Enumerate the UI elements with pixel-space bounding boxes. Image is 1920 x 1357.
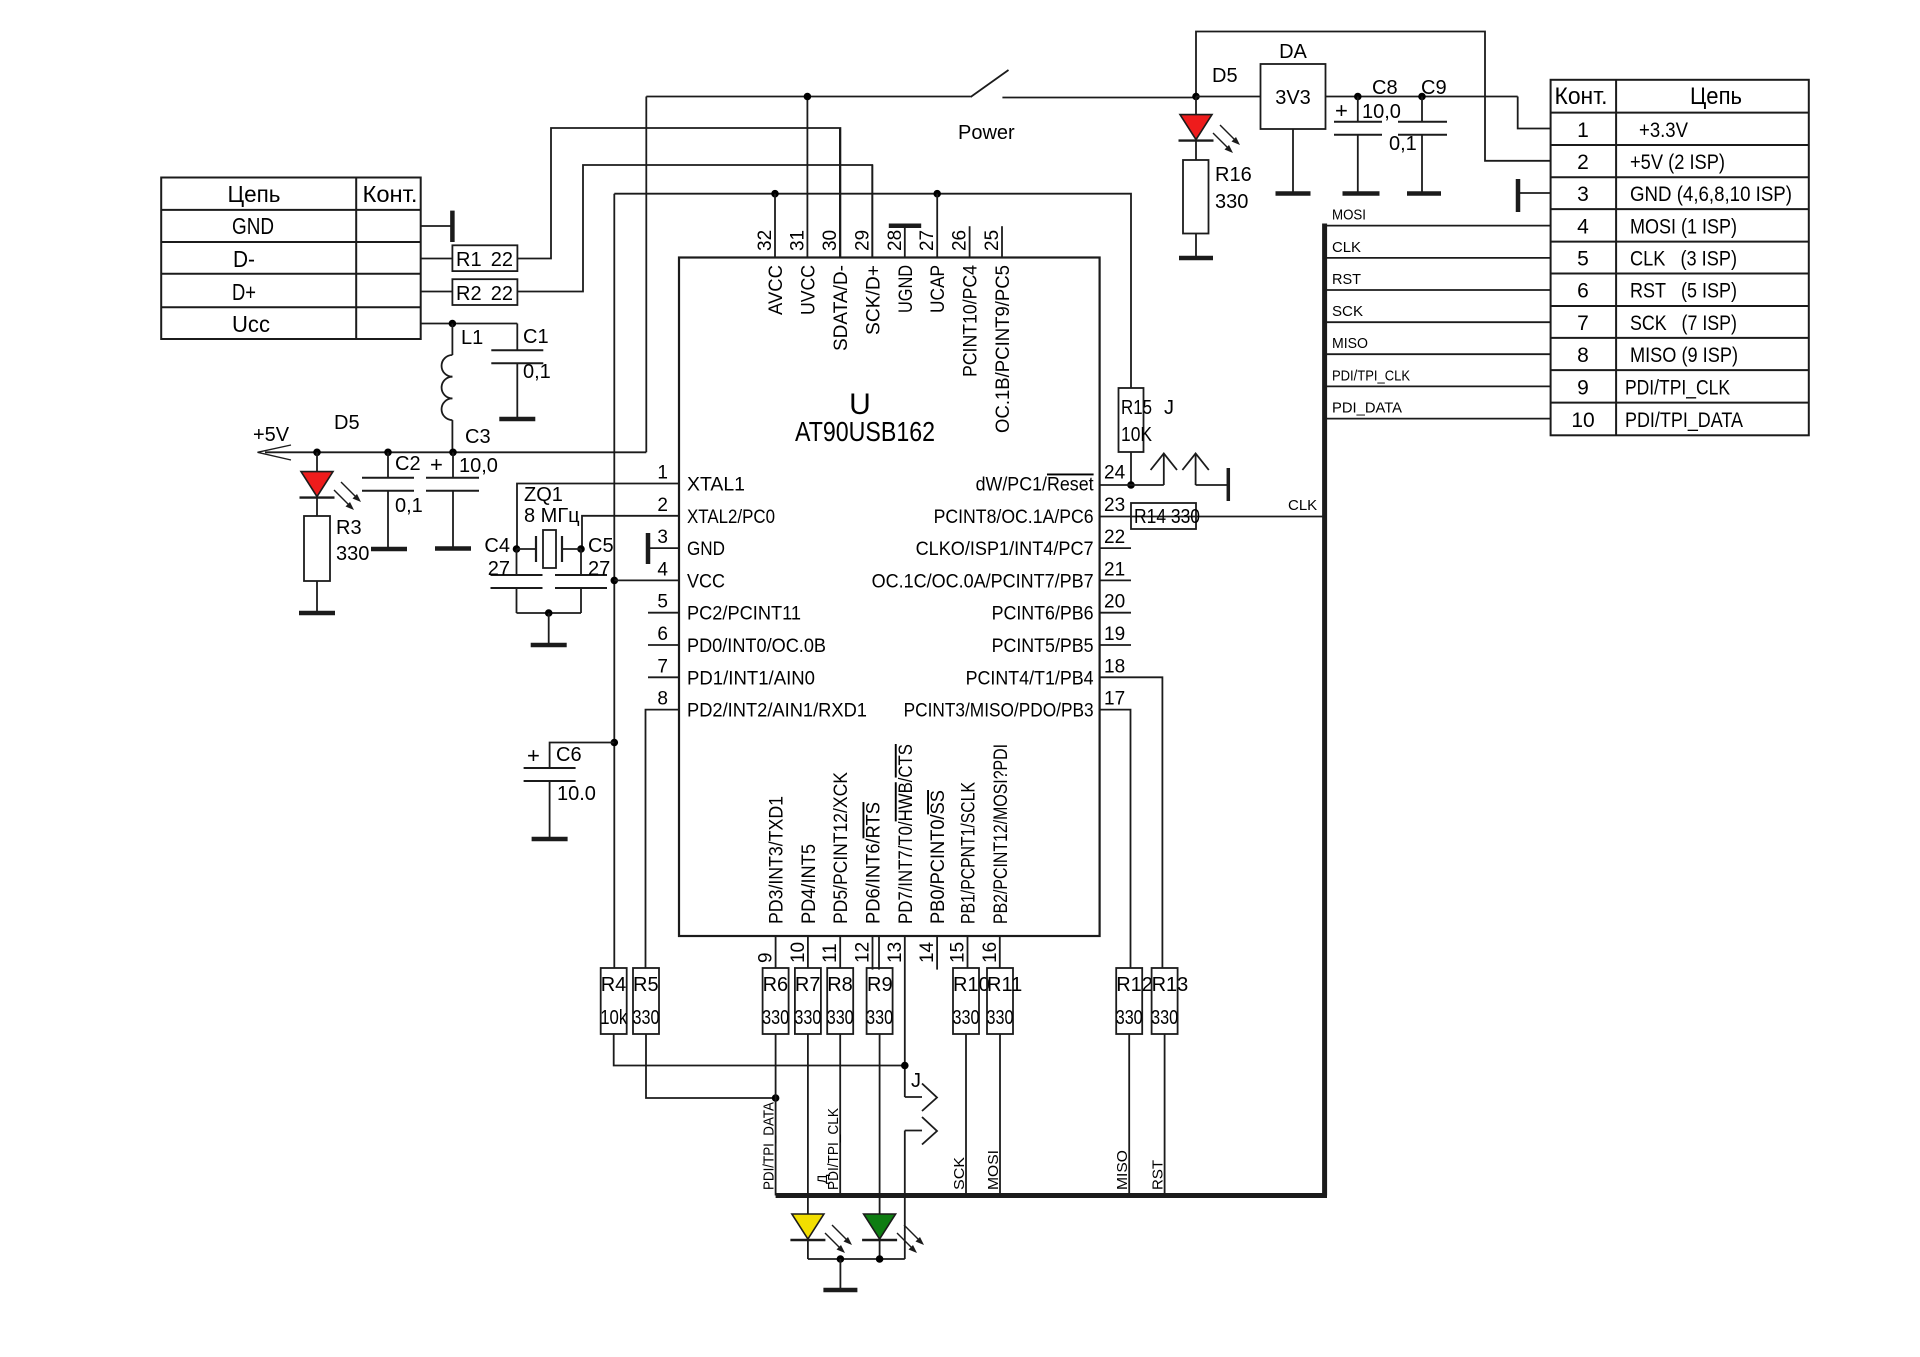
- svg-text:5: 5: [1577, 248, 1589, 271]
- svg-text:Конт.: Конт.: [1555, 83, 1608, 110]
- svg-text:24: 24: [1104, 463, 1126, 484]
- net label Д: [814, 1174, 830, 1184]
- svg-text:PDI/TPI_CLK: PDI/TPI_CLK: [1625, 376, 1730, 399]
- wire +5V riser to power switch: [645, 97, 647, 453]
- svg-text:R16: R16: [1215, 164, 1252, 186]
- wire DA output: [1326, 96, 1518, 98]
- svg-text:C8: C8: [1372, 77, 1398, 99]
- svg-text:+5V: +5V: [253, 424, 290, 446]
- svg-text:10k: 10k: [600, 1007, 628, 1029]
- svg-text:R15: R15: [1121, 397, 1152, 419]
- node C9 junction: [1418, 93, 1426, 101]
- resistor R4: [600, 968, 628, 1034]
- IC pin 27 name: [928, 265, 949, 313]
- svg-text:PD6/INT6/RTS: PD6/INT6/RTS: [864, 802, 885, 924]
- resistor R6: [762, 968, 789, 1034]
- svg-text:16: 16: [980, 942, 1001, 963]
- pin number 21: [1104, 559, 1125, 580]
- IC U AT90USB162 body: [679, 258, 1100, 937]
- svg-text:330: 330: [953, 1007, 980, 1029]
- svg-text:11: 11: [820, 943, 841, 963]
- wire 3V3 to table row1: [1518, 97, 1551, 129]
- wire power rail: [646, 96, 970, 98]
- pin 25 stub: [1001, 226, 1003, 257]
- pin 15 stub: [967, 936, 969, 968]
- USB shield ground bar: [450, 211, 455, 242]
- wire DA ground: [1292, 129, 1294, 194]
- pin 30 stub: [839, 128, 841, 258]
- pin 32 stub: [774, 194, 776, 258]
- wire AVCC-UCAP rail: [614, 194, 1131, 388]
- svg-text:PDI/TPI_DATA: PDI/TPI_DATA: [1625, 409, 1743, 432]
- net label MISO: [1114, 1150, 1131, 1190]
- svg-text:SCK (7 ISP): SCK (7 ISP): [1630, 312, 1737, 335]
- wire R3 to ground: [316, 581, 318, 613]
- svg-text:R9: R9: [867, 974, 893, 996]
- IC pin 20 name: [992, 604, 1094, 625]
- ground under C8: [1343, 191, 1380, 196]
- svg-text:PB0/PCINT0/SS: PB0/PCINT0/SS: [928, 790, 949, 924]
- svg-text:MISO (9 ISP): MISO (9 ISP): [1630, 344, 1738, 367]
- svg-text:+: +: [527, 743, 540, 768]
- pin number 31: [787, 230, 808, 251]
- pin number 32: [755, 230, 776, 251]
- net label CLK: [1332, 239, 1361, 256]
- capacitor C9: [1389, 77, 1447, 194]
- resistor R13: [1151, 968, 1188, 1034]
- IC pin 2 name: [687, 507, 775, 528]
- resistor R2: [452, 279, 517, 305]
- IC pin 24 name: [976, 475, 1095, 496]
- svg-text:GND: GND: [687, 539, 725, 560]
- IC pin 17 name: [904, 701, 1094, 722]
- node pin24 junction: [1127, 481, 1135, 489]
- svg-text:SCK: SCK: [1332, 303, 1363, 320]
- pin 31 stub: [806, 97, 808, 258]
- net label PDI_DATA: [1332, 400, 1402, 417]
- resistor R9: [866, 968, 893, 1034]
- wire R4 to HWB jumper: [614, 1034, 905, 1066]
- table header Конт.: [363, 181, 418, 207]
- net D+ label: [232, 279, 256, 305]
- svg-text:PD2/INT2/AIN1/RXD1: PD2/INT2/AIN1/RXD1: [687, 701, 867, 722]
- svg-text:9: 9: [1577, 376, 1589, 399]
- capacitor C1: [491, 324, 551, 420]
- IC pin 28 name: [896, 265, 917, 313]
- capacitor C3: [426, 426, 498, 549]
- switch Power label: [958, 122, 1015, 144]
- svg-text:13: 13: [885, 942, 906, 963]
- net Ucc label: [232, 311, 270, 337]
- wire power to DA: [1196, 96, 1261, 98]
- pin number 23: [1104, 495, 1125, 516]
- capacitor C2: [362, 452, 423, 549]
- svg-text:R3: R3: [336, 517, 362, 539]
- svg-text:XTAL1: XTAL1: [687, 475, 745, 496]
- svg-text:3: 3: [1577, 183, 1589, 206]
- resistor R11: [987, 968, 1023, 1034]
- svg-text:25: 25: [982, 230, 1003, 251]
- svg-text:PB2/PCINT12/MOSI?PDI: PB2/PCINT12/MOSI?PDI: [991, 744, 1012, 924]
- node UVCC junction: [804, 93, 812, 101]
- net label PDI/TPI_DATA: [761, 1102, 778, 1190]
- pin 6 stub: [648, 644, 679, 646]
- svg-text:C2: C2: [395, 453, 421, 475]
- node C3 junction: [449, 449, 457, 457]
- wire R6 to bus: [775, 1034, 777, 1196]
- svg-text:1: 1: [1577, 119, 1589, 142]
- wire R13 to bus: [1164, 1034, 1166, 1196]
- wire R8 to bus: [839, 1034, 841, 1196]
- svg-text:2: 2: [657, 495, 668, 516]
- svg-text:CLK (3 ISP): CLK (3 ISP): [1630, 248, 1737, 271]
- capacitor C4: [484, 535, 542, 613]
- pin 12 stub: [873, 936, 880, 970]
- net label MOSI: [985, 1150, 1002, 1190]
- svg-text:dW/PC1/Reset: dW/PC1/Reset: [976, 475, 1095, 496]
- ISP net row 5: [1630, 248, 1737, 271]
- svg-text:MOSI: MOSI: [1332, 207, 1366, 224]
- IC pin 16 name: [991, 744, 1012, 924]
- pin number 25: [982, 230, 1003, 251]
- svg-text:R14 330: R14 330: [1134, 506, 1200, 528]
- net label MISO: [1332, 335, 1368, 352]
- svg-text:MOSI (1 ISP): MOSI (1 ISP): [1630, 215, 1737, 238]
- pin number 12: [853, 942, 874, 963]
- svg-text:Цепь: Цепь: [228, 181, 281, 207]
- ISP net row 9: [1625, 376, 1730, 399]
- svg-text:3V3: 3V3: [1275, 87, 1311, 109]
- svg-text:330: 330: [336, 543, 369, 565]
- USB connector table frame: [161, 178, 421, 340]
- svg-text:330: 330: [1151, 1007, 1178, 1029]
- svg-text:+: +: [1335, 98, 1348, 123]
- ISP net row 8: [1630, 344, 1738, 367]
- pin number 1: [657, 463, 668, 484]
- ISP net row 2: [1630, 151, 1725, 174]
- svg-text:SDATA/D-: SDATA/D-: [831, 265, 852, 351]
- svg-text:UGND: UGND: [896, 265, 917, 313]
- jumper J arrow 2: [1182, 454, 1228, 486]
- pin 5 stub: [648, 612, 679, 614]
- pin number 4: [657, 559, 668, 580]
- svg-text:7: 7: [657, 656, 668, 677]
- svg-text:15: 15: [948, 942, 969, 963]
- ground under R3: [299, 611, 335, 616]
- svg-text:AVCC: AVCC: [766, 265, 787, 315]
- wire pin17 to R12: [1100, 710, 1131, 968]
- IC pin 29 name: [863, 265, 884, 335]
- wire bus to table PDI/TPI_CLK: [1325, 385, 1551, 387]
- svg-text:DA: DA: [1279, 41, 1307, 63]
- svg-text:PD4/INT5: PD4/INT5: [799, 844, 820, 924]
- svg-text:10K: 10K: [1121, 424, 1153, 446]
- svg-text:8: 8: [1577, 344, 1589, 367]
- svg-text:VCC: VCC: [687, 571, 725, 592]
- pin number 28: [885, 230, 906, 251]
- pin 10 stub: [807, 936, 809, 968]
- wire pin24 to jumper: [1100, 484, 1164, 486]
- ground under C9: [1407, 191, 1441, 196]
- IC pin 26 name: [961, 265, 982, 377]
- IC pin 6 name: [687, 636, 826, 657]
- svg-text:AT90USB162: AT90USB162: [795, 416, 935, 447]
- net GND label: [232, 213, 274, 239]
- wire pin23 CLK: [1100, 516, 1325, 518]
- pin 26 stub: [969, 226, 971, 257]
- svg-text:J: J: [1164, 397, 1174, 419]
- IC pin 9 name: [767, 796, 788, 924]
- svg-text:D5: D5: [1212, 65, 1238, 87]
- svg-text:GND: GND: [232, 213, 274, 239]
- svg-text:3: 3: [657, 527, 668, 548]
- svg-text:ZQ1: ZQ1: [524, 484, 563, 506]
- node D5 anode junction: [313, 449, 321, 457]
- pin 27 stub: [936, 194, 938, 258]
- ISP pin 6 number: [1577, 280, 1589, 303]
- wire +5V top loop: [1196, 32, 1551, 161]
- pin number 15: [948, 942, 969, 963]
- svg-text:R12: R12: [1116, 974, 1153, 996]
- pin number 10: [788, 942, 809, 963]
- svg-text:0,1: 0,1: [1389, 133, 1417, 155]
- IC pin 3 name: [687, 539, 725, 560]
- node C5 junction: [577, 545, 585, 553]
- svg-text:MOSI: MOSI: [985, 1150, 1002, 1190]
- wire to LED ground: [839, 1259, 841, 1288]
- svg-text:27: 27: [917, 230, 938, 251]
- wire bus to table PDI_DATA: [1325, 418, 1551, 420]
- svg-text:12: 12: [853, 942, 874, 963]
- node HWB junction: [901, 1062, 909, 1070]
- svg-text:5: 5: [657, 592, 668, 613]
- svg-text:29: 29: [852, 230, 873, 251]
- pin 7 stub: [648, 676, 679, 678]
- ground under DA: [1276, 191, 1311, 196]
- svg-text:PD5/PCINT12/XCK: PD5/PCINT12/XCK: [831, 772, 852, 924]
- pin 19 stub: [1100, 644, 1131, 646]
- net label PDI/TPI_CLK: [1332, 367, 1410, 384]
- svg-text:PD0/INT0/OC.0B: PD0/INT0/OC.0B: [687, 636, 826, 657]
- wire VCC rail: [613, 194, 615, 968]
- IC pin 15 name: [959, 782, 980, 924]
- pin number 29: [852, 230, 873, 251]
- ISP pin 8 number: [1577, 344, 1589, 367]
- wire LED cathode rail: [808, 1196, 905, 1260]
- svg-text:PCINT3/MISO/PDO/PB3: PCINT3/MISO/PDO/PB3: [904, 701, 1094, 722]
- svg-text:C4: C4: [484, 535, 510, 557]
- net label MOSI: [1332, 207, 1366, 224]
- ISP connector table frame: [1551, 80, 1809, 436]
- ground under crystal: [531, 643, 567, 648]
- jumper J bottom arrow 1: [905, 1084, 937, 1112]
- IC pin 31 name: [798, 265, 819, 315]
- table header Цепь: [228, 181, 281, 207]
- wire R15 bottom: [1130, 452, 1132, 485]
- ISP net row 6: [1630, 280, 1737, 303]
- ISP pin 7 number: [1577, 312, 1589, 335]
- ISP pin 9 number: [1577, 376, 1589, 399]
- wire GND row to shield bar: [421, 225, 452, 227]
- wire pin13 HWB: [904, 936, 906, 1097]
- svg-text:R13: R13: [1152, 974, 1189, 996]
- capacitor C6: [524, 743, 615, 840]
- wire bus to table MISO: [1325, 353, 1551, 355]
- wire bus to table RST: [1325, 289, 1551, 291]
- svg-text:PDI/TPI_CLK: PDI/TPI_CLK: [825, 1108, 842, 1190]
- IC pin 32 name: [766, 265, 787, 315]
- svg-text:D-: D-: [233, 246, 255, 272]
- ISP net row 3: [1630, 183, 1792, 206]
- net label RST: [1332, 271, 1361, 288]
- wire R9 to LED: [879, 1034, 881, 1214]
- node C4 junction: [513, 545, 521, 553]
- node C2 junction: [384, 449, 392, 457]
- pin number 18: [1104, 656, 1125, 677]
- svg-text:XTAL2/PC0: XTAL2/PC0: [687, 507, 775, 528]
- svg-text:330: 330: [866, 1007, 893, 1029]
- ground under C6: [532, 837, 568, 842]
- IC pin 22 name: [916, 539, 1094, 560]
- svg-text:27: 27: [588, 558, 610, 580]
- svg-text:8: 8: [657, 689, 668, 710]
- svg-text:UCAP: UCAP: [928, 265, 949, 313]
- LED D5 right: [1179, 65, 1241, 153]
- svg-text:23: 23: [1104, 495, 1125, 516]
- wire R5 to PDI_DATA: [646, 1034, 776, 1098]
- pin number 3: [657, 527, 668, 548]
- svg-text:PD1/INT1/AIN0: PD1/INT1/AIN0: [687, 668, 815, 689]
- svg-text:PDI/TPI_CLK: PDI/TPI_CLK: [1332, 367, 1410, 384]
- wire D5 to R3: [316, 498, 318, 516]
- wire R2 to pin29 SCK/D+: [517, 165, 872, 292]
- svg-text:SCK/D+: SCK/D+: [863, 265, 884, 335]
- ground bar pin3 GND: [648, 533, 679, 564]
- svg-text:2: 2: [1577, 151, 1589, 174]
- svg-text:CLKO/ISP1/INT4/PC7: CLKO/ISP1/INT4/PC7: [916, 539, 1094, 560]
- IC pin 25 name: [993, 265, 1014, 433]
- IC pin 12 name: [864, 802, 885, 924]
- svg-text:R5: R5: [633, 974, 659, 996]
- ground under LEDs: [823, 1288, 857, 1293]
- pin number 9: [756, 952, 777, 963]
- svg-text:1: 1: [657, 463, 668, 484]
- ground under C2: [371, 547, 407, 552]
- resistor R3: [304, 516, 369, 581]
- ISP pin 1 number: [1577, 119, 1589, 142]
- svg-text:Power: Power: [958, 122, 1015, 144]
- pin 21 stub: [1100, 579, 1131, 581]
- svg-text:PCINT8/OC.1A/PC6: PCINT8/OC.1A/PC6: [934, 507, 1094, 528]
- IC pin 21 name: [872, 571, 1094, 592]
- svg-text:26: 26: [950, 230, 971, 251]
- svg-text:PDI_DATA: PDI_DATA: [1332, 400, 1402, 417]
- svg-text:PDI/TPI_DATA: PDI/TPI_DATA: [761, 1102, 778, 1190]
- wire bus to table MOSI: [1325, 225, 1551, 227]
- pin 20 stub: [1100, 612, 1131, 614]
- wire D5 to R16: [1195, 141, 1197, 160]
- wire +5V rail: [265, 451, 646, 453]
- svg-text:R8: R8: [827, 974, 853, 996]
- pin number 17: [1104, 689, 1125, 710]
- IC part AT90USB162: [795, 416, 935, 447]
- svg-text:10: 10: [788, 942, 809, 963]
- ground bar ISP GND: [1518, 179, 1551, 212]
- pin 16 stub: [999, 936, 1001, 968]
- resistor R16: [1183, 160, 1252, 234]
- wire R11 to bus: [999, 1034, 1001, 1196]
- wire R10 to bus: [965, 1034, 967, 1196]
- node C8 junction: [1354, 93, 1362, 101]
- node UCAP junction: [933, 190, 941, 198]
- svg-text:PC2/PCINT11: PC2/PCINT11: [687, 604, 801, 625]
- capacitor C5: [555, 535, 614, 613]
- svg-text:SCK: SCK: [951, 1157, 968, 1190]
- IC pin 19 name: [992, 636, 1094, 657]
- svg-text:330: 330: [762, 1007, 789, 1029]
- svg-text:6: 6: [1577, 280, 1589, 303]
- net label SCK: [1332, 303, 1363, 320]
- capacitor C8: [1334, 77, 1401, 194]
- IC pin 7 name: [687, 668, 815, 689]
- svg-text:330: 330: [1215, 191, 1248, 213]
- svg-text:22: 22: [491, 283, 513, 305]
- jumper J bottom arrow 2: [905, 1117, 937, 1196]
- svg-text:RST (5 ISP): RST (5 ISP): [1630, 280, 1737, 303]
- ground under C1: [499, 417, 535, 422]
- svg-text:18: 18: [1104, 656, 1125, 677]
- svg-text:C3: C3: [465, 426, 491, 448]
- svg-text:R4: R4: [601, 974, 627, 996]
- resistor R8: [827, 968, 854, 1034]
- node crystal ground junction: [545, 609, 553, 617]
- svg-text:CLK: CLK: [1332, 239, 1361, 256]
- pin number 24: [1104, 463, 1126, 484]
- svg-text:RST: RST: [1332, 271, 1361, 288]
- pin number 26: [950, 230, 971, 251]
- svg-text:21: 21: [1104, 559, 1125, 580]
- ISP pin 2 number: [1577, 151, 1589, 174]
- svg-text:20: 20: [1104, 592, 1125, 613]
- IC pin 11 name: [831, 772, 852, 924]
- pin number 13: [885, 942, 906, 963]
- svg-text:330: 330: [633, 1007, 660, 1029]
- LED yellow: [790, 1214, 852, 1253]
- IC pin 8 name: [687, 701, 867, 722]
- table header Цепь: [1690, 83, 1742, 110]
- svg-text:330: 330: [987, 1007, 1014, 1029]
- svg-text:D+: D+: [232, 279, 256, 305]
- svg-text:4: 4: [657, 559, 668, 580]
- ground under R16: [1179, 256, 1213, 261]
- pin 9 stub: [775, 936, 777, 968]
- LED D5 left: [300, 412, 362, 510]
- svg-text:C6: C6: [556, 744, 582, 766]
- resistor R7: [794, 968, 821, 1034]
- svg-text:OC.1C/OC.0A/PCINT7/PB7: OC.1C/OC.0A/PCINT7/PB7: [872, 571, 1094, 592]
- svg-text:R10: R10: [953, 974, 990, 996]
- crystal ZQ1: [517, 484, 582, 568]
- wire pin18 to R13: [1100, 677, 1163, 968]
- wire crystal caps to ground: [517, 612, 582, 614]
- pin number 16: [980, 942, 1001, 963]
- svg-text:330: 330: [1116, 1007, 1143, 1029]
- svg-text:PCINT5/PB5: PCINT5/PB5: [992, 636, 1094, 657]
- IC pin 18 name: [966, 668, 1094, 689]
- wire R12 to bus: [1128, 1034, 1130, 1196]
- node LED ground junction: [837, 1255, 845, 1263]
- inductor L1: [442, 324, 484, 453]
